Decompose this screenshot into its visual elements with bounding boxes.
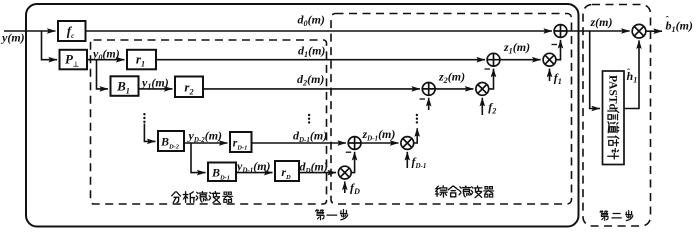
wire y(m) input xyxy=(4,30,56,32)
minus sign at z_D-1 adder xyxy=(346,151,351,153)
svg-text:zD-1(m): zD-1(m) xyxy=(362,127,396,143)
outer solid box (step 1 region) xyxy=(26,4,579,227)
label analysis filter (Chinese) xyxy=(172,192,181,203)
svg-text:d2(m): d2(m) xyxy=(297,72,324,88)
wire z_D-1 to f_D-1 xyxy=(361,142,398,144)
svg-text:PASTd: PASTd xyxy=(607,75,619,111)
wire d_D row xyxy=(299,172,336,174)
f2 input arrow xyxy=(481,98,483,115)
block r_2 xyxy=(175,77,203,98)
wire branch to B_D-1 xyxy=(191,143,206,173)
wire d2 row xyxy=(203,88,420,90)
svg-text:yD-2(m): yD-2(m) xyxy=(187,129,223,145)
wire B_D-1 to r_D xyxy=(236,172,273,174)
svg-text:ˆ: ˆ xyxy=(627,67,630,77)
multiplier f_D-1 xyxy=(401,137,414,150)
adder z1 xyxy=(487,53,500,66)
multiplier f2 xyxy=(476,83,489,96)
adder z2 xyxy=(422,83,435,96)
char gu xyxy=(608,136,619,146)
char ji xyxy=(608,149,619,160)
ellipsis dots left column xyxy=(308,114,310,124)
f_D-1 input arrow xyxy=(406,152,408,168)
adder z_D-1 xyxy=(348,137,361,150)
wire d0 row xyxy=(86,30,553,32)
block r_D-1 xyxy=(230,132,252,152)
block P_perp xyxy=(60,50,88,70)
block B_D-1 xyxy=(208,163,236,182)
ellipsis dots above B_D-2 feed xyxy=(143,113,145,123)
wire M3 up arrow xyxy=(414,128,418,143)
f1 input arrow xyxy=(549,69,551,81)
node branch to P xyxy=(42,31,58,60)
wire z2 to f2 xyxy=(435,88,473,90)
minus sign at z2 adder xyxy=(420,98,426,100)
wire M1 up into A0, minus xyxy=(556,40,561,60)
block f_c xyxy=(58,21,86,41)
wire z1 to f1 xyxy=(500,59,541,61)
wire branch z to PASTd xyxy=(590,31,600,109)
multiplier output (hb1) xyxy=(632,24,646,38)
dots above M3 arrow xyxy=(416,114,418,124)
step 2 dashed box xyxy=(583,5,651,227)
label step two (Chinese) xyxy=(600,211,608,221)
wire M0 output xyxy=(646,30,662,32)
wire M4 up into A3, minus xyxy=(351,152,354,173)
svg-text:y(m): y(m) xyxy=(0,31,25,45)
block B_1 xyxy=(111,76,139,96)
svg-text:yD-1(m): yD-1(m) xyxy=(235,159,271,175)
wire into B_D-2 xyxy=(144,124,155,142)
minus sign at A0 xyxy=(552,44,558,46)
block B_D-2 xyxy=(158,131,184,151)
minus sign at z1 adder xyxy=(485,68,491,70)
svg-text:d1(m): d1(m) xyxy=(298,44,325,60)
wire PASTd to M0 xyxy=(624,40,639,108)
wire M2 up into A1, minus xyxy=(489,69,494,89)
svg-text:dD-1(m): dD-1(m) xyxy=(293,129,327,145)
f_D input arrow xyxy=(344,182,346,194)
synthesis filter dashed box xyxy=(331,14,572,205)
wire P to r1 xyxy=(87,59,125,61)
label synthesis filter (Chinese) xyxy=(436,186,448,197)
stub arrow below A2, minus xyxy=(428,98,430,110)
char dao xyxy=(608,122,619,133)
block PASTd channel estimator xyxy=(603,71,625,165)
svg-text:z1(m): z1(m) xyxy=(503,40,530,56)
wire B_D-2 to r_D-1 xyxy=(184,142,228,144)
svg-text:b1(m): b1(m) xyxy=(666,19,693,35)
svg-text:d0(m): d0(m) xyxy=(298,13,325,29)
multiplier f1 xyxy=(543,53,556,66)
analysis filter dashed box xyxy=(91,40,327,204)
svg-text:z2(m): z2(m) xyxy=(438,70,465,86)
wire d1 row xyxy=(156,59,485,61)
wire d_D-1 row xyxy=(252,142,347,144)
block r_1 xyxy=(127,50,156,70)
svg-text:y0(m): y0(m) xyxy=(91,47,120,63)
adder A0 (top, d0) xyxy=(554,25,567,38)
block r_D xyxy=(275,161,299,181)
label step one (Chinese) xyxy=(316,210,324,220)
wire B1 to r2 xyxy=(139,88,173,90)
svg-text:z(m): z(m) xyxy=(590,15,613,29)
wire branch to B1 xyxy=(97,60,109,89)
char xin xyxy=(608,110,619,120)
wire A0 output to M0 xyxy=(567,30,630,32)
svg-text:y1(m): y1(m) xyxy=(140,76,169,92)
multiplier f_D xyxy=(338,166,351,179)
svg-text:dD(m): dD(m) xyxy=(300,160,328,176)
